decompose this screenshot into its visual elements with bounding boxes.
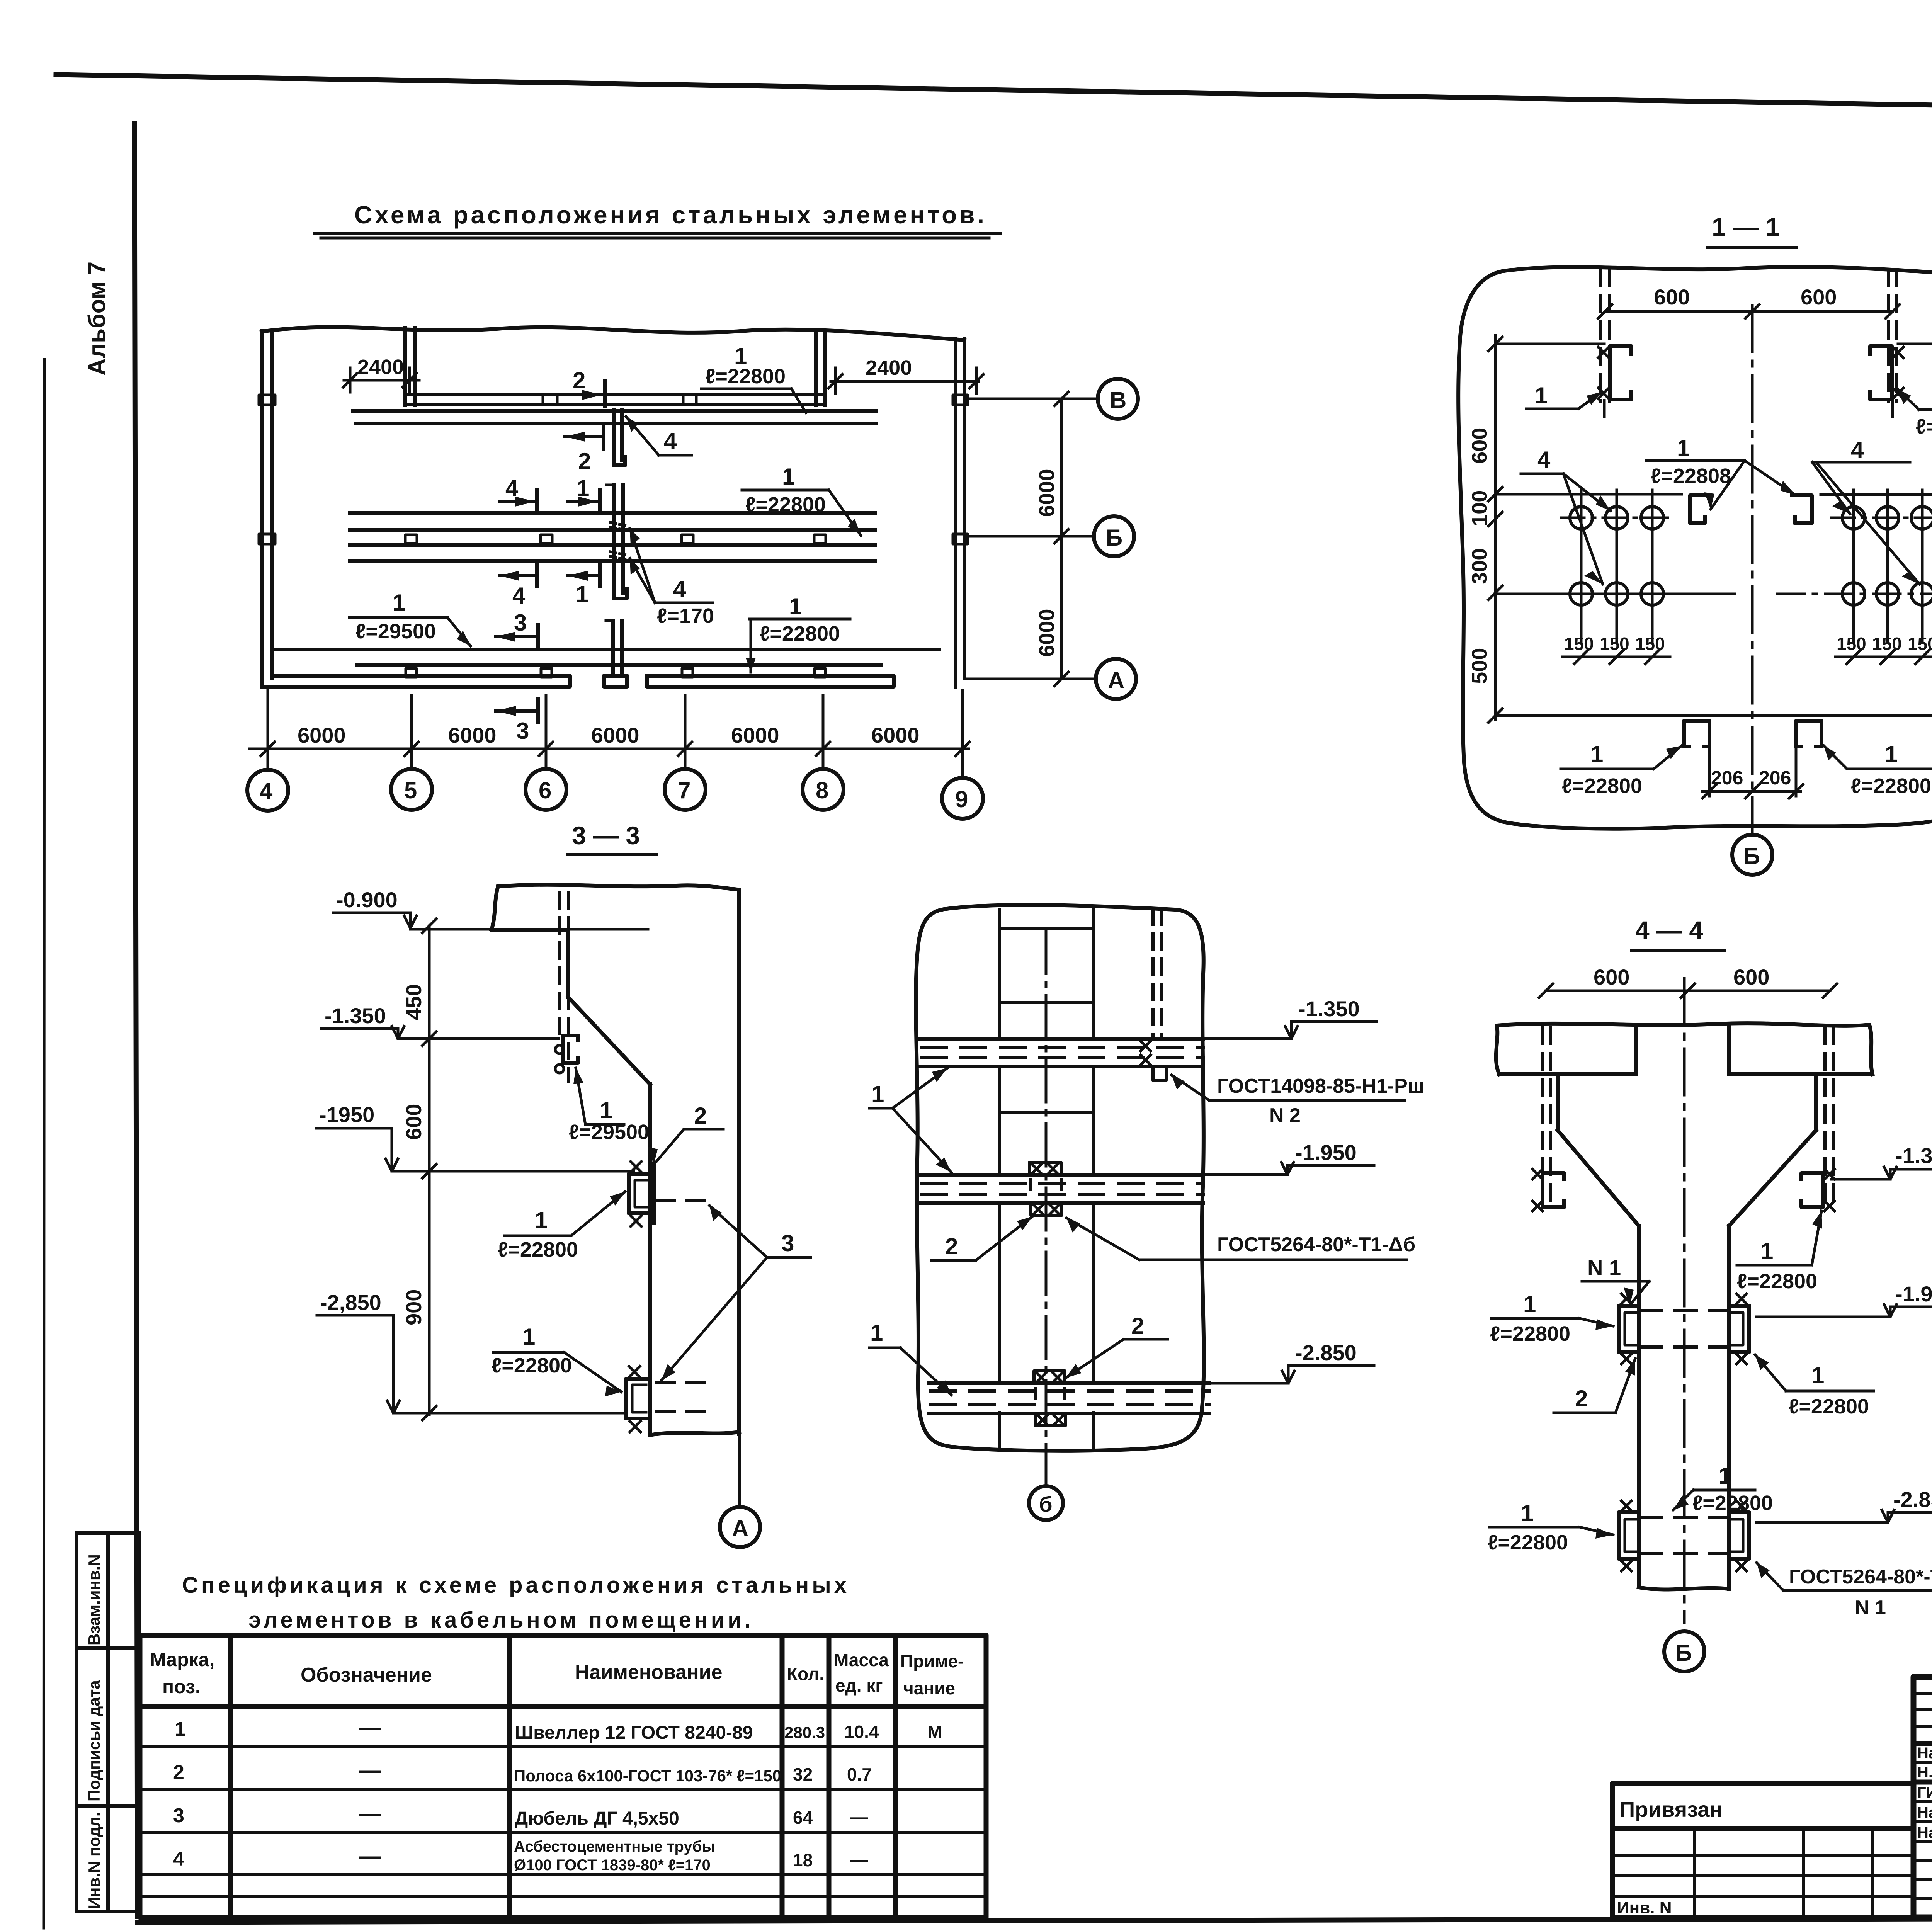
bolts left group	[1570, 507, 1663, 605]
channel 1 head-left	[1532, 1169, 1564, 1211]
dim 2400 right	[828, 356, 983, 393]
hidden channel dashed mid	[1640, 1311, 1728, 1347]
svg-text:Ø100 ГОСТ 1839-80* ℓ=170: Ø100 ГОСТ 1839-80* ℓ=170	[514, 1857, 711, 1874]
svg-text:Нач. гр.: Нач. гр.	[1917, 1824, 1932, 1841]
label 1 l=22800 lower	[492, 1324, 621, 1396]
svg-text:2: 2	[1131, 1313, 1144, 1339]
section mark 3 upper	[495, 610, 538, 648]
svg-text:—: —	[850, 1807, 868, 1827]
svg-text:Нач.отд.: Нач.отд.	[1917, 1745, 1932, 1762]
svg-text:Кол.: Кол.	[787, 1664, 824, 1684]
band joint pair 2	[682, 395, 685, 405]
svg-text:элементов в кабельном поме: элементов в кабельном помещении.	[248, 1607, 751, 1633]
svg-text:1: 1	[871, 1081, 884, 1107]
svg-text:1: 1	[1719, 1463, 1731, 1489]
svg-text:450: 450	[401, 984, 426, 1020]
svg-text:1: 1	[1811, 1362, 1824, 1388]
center axis	[1683, 978, 1686, 1623]
label 4 left	[1521, 447, 1611, 584]
left dim chain vertical	[1467, 335, 1502, 723]
svg-text:1: 1	[1885, 741, 1898, 767]
svg-text:150: 150	[1635, 634, 1665, 654]
label 4 with leader (top)	[626, 417, 692, 455]
hidden plate edges in band3	[1036, 1389, 1065, 1399]
title block outer	[1913, 1677, 1932, 1917]
dowel squares row B	[405, 535, 417, 543]
label 1 l=29500	[349, 590, 471, 646]
label 2	[648, 1103, 723, 1165]
dim chain 3-3	[401, 919, 436, 1420]
shaft left face	[1637, 1226, 1641, 1587]
section mark 1 upper	[568, 475, 600, 512]
svg-text:ед. кг: ед. кг	[835, 1675, 883, 1696]
svg-text:3: 3	[781, 1230, 794, 1256]
channel run line B2	[356, 422, 876, 425]
grid line 5	[410, 696, 413, 769]
svg-text:ℓ=22800: ℓ=22800	[1916, 415, 1932, 438]
bottom channel run line A1	[276, 648, 939, 651]
svg-text:2: 2	[173, 1761, 184, 1784]
label 1 l=22800 bottom-right	[1824, 741, 1932, 798]
svg-text:ℓ=22800: ℓ=22800	[498, 1238, 578, 1261]
svg-text:Дюбель ДГ 4,5х50: Дюбель ДГ 4,5х50	[515, 1808, 679, 1829]
weld plate above band3	[1034, 1371, 1065, 1383]
left exterior wall	[260, 331, 264, 687]
taper diagonal left	[1558, 1130, 1639, 1226]
svg-text:Инв.N подл.: Инв.N подл.	[85, 1812, 103, 1909]
column head right face	[1814, 1074, 1818, 1130]
interior wall left	[403, 328, 407, 405]
grid line 4	[267, 690, 269, 770]
svg-text:1 — 1: 1 — 1	[1712, 213, 1780, 241]
svg-text:3 — 3: 3 — 3	[572, 821, 640, 850]
frame bottom border	[138, 1917, 1932, 1922]
flat bar 2 mid	[651, 1164, 656, 1223]
svg-text:600: 600	[1801, 285, 1837, 309]
label 1 l=22800 left lower	[1488, 1500, 1613, 1554]
svg-text:32: 32	[793, 1764, 813, 1784]
svg-text:1: 1	[1523, 1291, 1536, 1317]
svg-text:6: 6	[539, 777, 551, 803]
row leader Bm line	[966, 535, 1094, 538]
walkway band 3	[929, 1383, 1209, 1413]
label 1 upper with two leaders	[869, 1068, 951, 1172]
label GOST 5264 N1	[1757, 1563, 1932, 1619]
svg-text:280.3: 280.3	[784, 1723, 825, 1742]
anchor dashed right	[1825, 1027, 1833, 1209]
svg-text:2: 2	[945, 1233, 958, 1259]
svg-text:-1.350: -1.350	[1298, 997, 1360, 1021]
level flag -1.350	[1205, 997, 1376, 1039]
svg-text:ℓ=22800: ℓ=22800	[1692, 1492, 1773, 1515]
dim 206 206	[1702, 767, 1803, 798]
bolts right group	[1842, 507, 1932, 605]
channel 1 head-right	[1801, 1169, 1835, 1211]
SPEC	[140, 1573, 986, 1917]
left wall joint marks	[259, 395, 275, 405]
walkway band 2	[920, 1175, 1203, 1203]
weld plate below band3	[1035, 1413, 1065, 1426]
svg-text:6000: 6000	[1034, 469, 1059, 517]
svg-text:Наименование: Наименование	[575, 1661, 723, 1684]
dim 150x3 left	[1563, 634, 1670, 664]
channel 1 center (row B vertical)	[607, 485, 627, 599]
label 3 with leaders	[662, 1206, 811, 1380]
panel cross line 1	[1000, 927, 1093, 930]
svg-text:—: —	[850, 1849, 868, 1869]
svg-text:-2,850: -2,850	[320, 1290, 381, 1315]
label 1 lower leader	[869, 1320, 951, 1395]
svg-text:1: 1	[1760, 1238, 1773, 1264]
svg-text:6000: 6000	[871, 723, 920, 747]
label 1 l=29500	[569, 1068, 649, 1144]
svg-text:600: 600	[1733, 965, 1769, 989]
svg-text:4 — 4: 4 — 4	[1635, 916, 1703, 944]
section mark 3 lower	[496, 699, 538, 744]
svg-text:А: А	[732, 1515, 748, 1541]
level flag -1.950	[1756, 1282, 1932, 1317]
svg-text:чание: чание	[903, 1678, 955, 1698]
grid circle B below 4-4	[1664, 1631, 1704, 1672]
center axis vertical	[1045, 931, 1048, 1486]
middle band line 1	[350, 511, 875, 515]
row leader A line	[966, 678, 1096, 680]
svg-text:6000: 6000	[298, 723, 346, 747]
bracket shaft-right lower	[1729, 1501, 1749, 1571]
svg-text:Полоса 6х100-ГОСТ 103-76* ℓ=15: Полоса 6х100-ГОСТ 103-76* ℓ=150	[514, 1767, 781, 1785]
svg-text:1: 1	[782, 464, 795, 490]
svg-text:150: 150	[1564, 634, 1594, 654]
svg-text:1: 1	[1521, 1500, 1534, 1526]
level -2.850 refline	[393, 1412, 624, 1415]
svg-text:—: —	[359, 1758, 381, 1782]
svg-text:150: 150	[1837, 634, 1866, 654]
svg-text:Швеллер 12 ГОСТ 8240-89: Швеллер 12 ГОСТ 8240-89	[515, 1723, 753, 1743]
svg-text:1: 1	[600, 1097, 612, 1123]
level -2.850 refline	[1495, 714, 1932, 717]
label 4 right	[1812, 437, 1920, 584]
label GOST 14098 N2	[1172, 1075, 1424, 1127]
bolt columns right	[1854, 490, 1922, 641]
SEC33	[316, 885, 811, 1547]
row circle B	[1098, 379, 1138, 419]
svg-text:Обозначение: Обозначение	[301, 1664, 432, 1686]
bolt row2 line	[1495, 593, 1735, 595]
weld plate above band2	[1029, 1162, 1061, 1175]
svg-text:ℓ=22800: ℓ=22800	[1490, 1322, 1570, 1345]
label 1 l=22800 head-right	[1737, 1211, 1822, 1293]
label 1 l=22800 bottom right	[746, 594, 850, 672]
svg-text:ℓ=170: ℓ=170	[657, 604, 714, 628]
level flag -1.950	[1205, 1140, 1374, 1175]
svg-text:7: 7	[678, 777, 690, 803]
svg-text:1: 1	[789, 594, 802, 619]
svg-text:10.4: 10.4	[844, 1722, 879, 1742]
level flag -1.350	[1832, 1143, 1932, 1179]
svg-text:—: —	[359, 1715, 381, 1740]
svg-text:1: 1	[1535, 383, 1548, 408]
svg-text:Марка,: Марка,	[150, 1649, 214, 1670]
section mark 2 lower	[565, 424, 604, 474]
grid circle B below	[1732, 835, 1772, 875]
column upper-left face	[566, 930, 570, 997]
svg-text:Масса: Масса	[834, 1650, 889, 1670]
svg-text:-0.900: -0.900	[336, 888, 398, 912]
middle band line 4	[350, 559, 875, 563]
taper diagonal right	[1729, 1130, 1816, 1226]
bottom channel run line A2	[357, 663, 881, 667]
svg-text:206: 206	[1711, 767, 1743, 789]
level flag -2.850	[1211, 1340, 1374, 1383]
level -1.350 refline	[398, 1037, 559, 1040]
channel 1 mid-left	[1690, 495, 1707, 523]
svg-text:ℓ=22800: ℓ=22800	[1488, 1531, 1568, 1554]
DETB	[869, 905, 1424, 1520]
svg-text:3: 3	[516, 718, 529, 744]
svg-text:-2.850: -2.850	[1893, 1487, 1932, 1512]
label 1 l=22800 top-right	[1898, 383, 1932, 438]
level flag -1.950	[316, 1102, 398, 1171]
svg-text:N 1: N 1	[1587, 1255, 1621, 1280]
grid leader A	[738, 1434, 741, 1507]
svg-text:900: 900	[401, 1289, 426, 1325]
label 4 l=170	[630, 529, 714, 628]
label GOST 5264	[1066, 1218, 1415, 1260]
bracket shaft-right mid	[1729, 1294, 1749, 1364]
svg-text:Асбестоцементные трубы: Асбестоцементные трубы	[514, 1838, 715, 1855]
svg-text:100: 100	[1467, 490, 1492, 526]
svg-text:-2.850: -2.850	[1295, 1340, 1357, 1365]
channel bracket mid	[629, 1162, 649, 1226]
svg-text:6000: 6000	[731, 723, 779, 747]
dim ticks	[261, 742, 969, 756]
svg-text:ℓ=22800: ℓ=22800	[1562, 774, 1642, 798]
dim 600 600	[1598, 285, 1900, 318]
shaft bottom break	[1639, 1587, 1729, 1590]
right exterior wall	[954, 339, 957, 687]
svg-text:6000: 6000	[591, 723, 639, 747]
svg-text:Взам.инв.N: Взам.инв.N	[85, 1554, 103, 1645]
label 1 l=22800 middle right	[742, 464, 861, 536]
SEC11	[1458, 213, 1932, 875]
svg-text:4: 4	[673, 576, 686, 602]
sheet left edge line	[44, 359, 44, 1928]
svg-text:1: 1	[393, 590, 405, 616]
svg-text:1: 1	[1590, 741, 1603, 767]
svg-text:206: 206	[1759, 767, 1791, 789]
hidden plate edges in band2	[1031, 1179, 1061, 1189]
anchor dashed right	[1888, 269, 1897, 402]
svg-text:1: 1	[175, 1718, 186, 1740]
channel 1 bottom-left	[1684, 721, 1709, 796]
channel 1 bottom-right	[1796, 721, 1821, 796]
svg-text:N 1: N 1	[1855, 1597, 1886, 1619]
dim 150x3 right	[1835, 634, 1932, 664]
anchor notch	[1153, 1066, 1166, 1080]
svg-text:Н.контр.: Н.контр.	[1917, 1764, 1932, 1781]
interior wall right	[814, 333, 818, 405]
svg-text:150: 150	[1908, 634, 1932, 654]
label 2	[1554, 1359, 1635, 1413]
svg-text:2: 2	[578, 448, 591, 474]
hidden channel dashed lower	[1640, 1517, 1728, 1554]
svg-text:Приме-: Приме-	[900, 1651, 964, 1671]
grid circle b below	[1029, 1486, 1063, 1520]
channel 1 top-right	[1870, 346, 1903, 417]
left marginal strip table	[77, 1533, 139, 1912]
spec table grid	[140, 1635, 986, 1917]
svg-text:А: А	[1108, 667, 1124, 693]
grid circle A below	[720, 1507, 760, 1547]
level -1.950 refline	[392, 1170, 634, 1173]
frame left border	[134, 124, 138, 1917]
svg-text:2: 2	[573, 367, 585, 393]
anchor welds	[1141, 1041, 1151, 1065]
anchor dashed pair	[560, 893, 568, 1082]
svg-text:Альбом 7: Альбом 7	[84, 262, 111, 376]
svg-text:Б: Б	[1675, 1640, 1692, 1666]
svg-text:поз.: поз.	[162, 1676, 201, 1697]
grid circle 7	[665, 769, 706, 810]
column right face	[737, 889, 741, 1434]
level -1.950 refline	[1495, 493, 1682, 496]
weld plate below band2	[1031, 1203, 1062, 1215]
label N1	[1582, 1255, 1649, 1305]
label 1 l=22800 bottom-left	[1561, 741, 1682, 798]
bottom dowel squares	[406, 668, 417, 677]
label 1 l=22800 top	[701, 343, 806, 413]
row leader B line	[966, 398, 1098, 400]
svg-text:4: 4	[664, 428, 677, 454]
concrete blob outline	[1458, 267, 1932, 829]
svg-text:150: 150	[1872, 634, 1902, 654]
svg-text:64: 64	[793, 1808, 813, 1828]
label 1 l=22800 right mid	[1755, 1355, 1874, 1418]
sheet top border line	[56, 75, 1932, 118]
svg-text:В: В	[1110, 387, 1126, 413]
svg-text:ℓ=22800: ℓ=22800	[1737, 1270, 1817, 1293]
bolt columns left	[1581, 490, 1652, 641]
level -1.350 refline	[1495, 343, 1604, 345]
svg-text:-1.350: -1.350	[325, 1003, 386, 1028]
svg-text:600: 600	[1467, 428, 1492, 464]
level flag -1.350	[321, 1003, 404, 1039]
label 1 l=22800 above lower bracket	[1673, 1463, 1773, 1515]
level flag -2.850	[1756, 1487, 1932, 1522]
label 1 l=22800 left mid	[1490, 1291, 1613, 1345]
bottom wall band row A segment left	[262, 676, 570, 687]
column head left face	[1556, 1074, 1560, 1130]
svg-text:600: 600	[401, 1104, 426, 1140]
label 1 l=22800 center	[1646, 435, 1796, 509]
hidden strip dashed lower2	[657, 1410, 705, 1413]
channel run line B1	[353, 409, 876, 413]
PLANVIEW	[247, 327, 1138, 855]
svg-text:ℓ=22800: ℓ=22800	[760, 622, 840, 645]
bracket shaft-left lower	[1619, 1501, 1639, 1571]
svg-text:3: 3	[173, 1804, 184, 1827]
dim 600 600	[1539, 965, 1837, 998]
panel joint left	[998, 910, 1001, 1448]
svg-text:Привязан: Привязан	[1619, 1797, 1723, 1821]
channel 4 top (asbestos tube sleeve)	[607, 410, 625, 465]
walkway band 1	[920, 1039, 1203, 1066]
top wall band row B	[405, 393, 825, 396]
bolt row1 centerline	[1561, 517, 1673, 519]
svg-text:3: 3	[514, 610, 527, 636]
svg-text:ГОСТ14098-85-Н1-Рш: ГОСТ14098-85-Н1-Рш	[1217, 1075, 1424, 1097]
svg-text:ℓ=22800: ℓ=22800	[705, 365, 786, 388]
grid line 8	[822, 696, 825, 769]
svg-text:4: 4	[512, 583, 526, 609]
grid dimension line bottom	[250, 748, 969, 750]
privyazan box	[1612, 1783, 1913, 1917]
label 2 upper	[932, 1216, 1032, 1260]
building top break edge	[262, 327, 964, 340]
column left face	[648, 1084, 652, 1435]
svg-text:ℓ=22800: ℓ=22800	[1851, 774, 1931, 798]
svg-text:Б: Б	[1106, 525, 1122, 551]
grid circle 8	[803, 769, 844, 810]
grid line 9	[961, 690, 964, 778]
svg-text:1: 1	[576, 581, 588, 607]
grid line 7	[684, 696, 687, 769]
svg-text:9: 9	[955, 786, 968, 812]
bracket shaft-left mid	[1619, 1294, 1639, 1364]
svg-text:2: 2	[694, 1103, 707, 1129]
top slab outline	[498, 885, 738, 889]
grid circle 9	[942, 778, 983, 819]
svg-text:2: 2	[1575, 1386, 1588, 1412]
svg-text:8: 8	[816, 777, 828, 803]
svg-text:ГИП стр.: ГИП стр.	[1917, 1784, 1932, 1801]
band joint pair 1	[542, 395, 544, 405]
label 1 top-left	[1526, 383, 1602, 409]
svg-text:1: 1	[870, 1320, 883, 1346]
svg-text:N 2: N 2	[1269, 1104, 1301, 1127]
svg-text:4: 4	[173, 1848, 184, 1870]
SEC44	[1488, 916, 1932, 1672]
dim 2400 left	[343, 355, 419, 392]
ceiling slab outline	[1496, 1023, 1872, 1074]
anchor dashed pair	[1153, 909, 1162, 1039]
svg-text:Подписьи дата: Подписьи дата	[85, 1680, 103, 1801]
svg-text:0.7: 0.7	[847, 1764, 872, 1784]
svg-text:б: б	[1039, 1492, 1053, 1516]
STAMP	[1612, 1677, 1932, 1932]
section mark 4 lower	[499, 564, 537, 609]
svg-text:4: 4	[260, 778, 273, 804]
svg-text:500: 500	[1467, 648, 1492, 684]
svg-text:300: 300	[1467, 548, 1492, 584]
svg-text:ℓ=22808: ℓ=22808	[1651, 464, 1731, 488]
svg-text:1: 1	[522, 1324, 535, 1350]
center axis line	[1751, 305, 1754, 834]
svg-text:ℓ=29500: ℓ=29500	[569, 1121, 649, 1144]
column bottom break	[650, 1432, 739, 1435]
svg-text:6000: 6000	[1034, 609, 1059, 657]
svg-text:2400: 2400	[866, 356, 912, 379]
grid circle 5	[391, 769, 432, 810]
svg-text:Инв. N: Инв. N	[1617, 1898, 1672, 1917]
svg-text:600: 600	[1654, 285, 1690, 309]
svg-text:ℓ=29500: ℓ=29500	[355, 620, 436, 643]
row circle Bm	[1094, 516, 1134, 556]
svg-text:6000: 6000	[448, 723, 497, 747]
svg-text:150: 150	[1600, 634, 1629, 654]
level flag -0.900	[333, 888, 417, 928]
svg-text:4: 4	[1851, 437, 1864, 463]
